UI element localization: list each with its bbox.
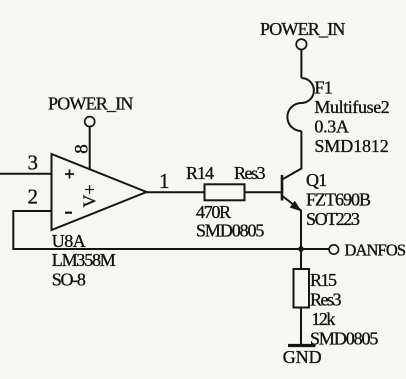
svg-text:Res3: Res3 <box>310 290 342 310</box>
wire R14 to Q1 base <box>245 191 282 193</box>
ground bar <box>288 344 316 347</box>
wire pin3 input <box>0 173 52 175</box>
Q1 emitter arrowhead <box>291 202 301 211</box>
op-amp U8A triangle <box>52 154 147 230</box>
svg-text:FZT690B: FZT690B <box>306 190 371 210</box>
wire fuse to Q1 collector <box>283 131 301 179</box>
svg-text:Res3: Res3 <box>234 163 266 183</box>
svg-text:SO-8: SO-8 <box>52 270 86 290</box>
svg-text:12k: 12k <box>311 309 335 329</box>
svg-text:SOT223: SOT223 <box>306 209 360 229</box>
wire R15 to ground <box>300 308 302 345</box>
svg-text:SMD0805: SMD0805 <box>310 329 378 349</box>
svg-text:SMD0805: SMD0805 <box>196 221 264 241</box>
svg-text:LM358M: LM358M <box>52 250 116 270</box>
svg-text:F1: F1 <box>314 78 332 98</box>
wire power to fuse <box>300 50 302 79</box>
svg-text:POWER_IN: POWER_IN <box>48 94 133 114</box>
svg-text:SMD1812: SMD1812 <box>314 136 388 156</box>
wire node to R15 <box>300 249 302 269</box>
power port circle top <box>296 39 306 49</box>
transistor Q1 base bar <box>281 175 284 201</box>
svg-text:GND: GND <box>283 347 322 367</box>
power port circle above op-amp <box>85 117 95 127</box>
svg-text:1: 1 <box>159 169 170 193</box>
svg-text:V+: V+ <box>80 184 100 207</box>
svg-text:0.3A: 0.3A <box>314 117 349 137</box>
svg-text:DANFOS: DANFOS <box>345 241 406 260</box>
port circle DANFOS <box>329 245 338 254</box>
svg-text:3: 3 <box>28 151 39 175</box>
svg-text:8: 8 <box>72 144 93 154</box>
fuse F1 body (S-curve) <box>287 78 313 131</box>
power pin 8 wire into op-amp <box>89 127 91 170</box>
op-amp plus input marker <box>65 170 74 179</box>
svg-text:Multifuse2: Multifuse2 <box>314 97 389 117</box>
svg-text:POWER_IN: POWER_IN <box>260 19 345 39</box>
svg-text:R14: R14 <box>186 163 214 183</box>
resistor R15 body <box>294 269 310 308</box>
op-amp minus input marker <box>65 212 72 214</box>
svg-text:R15: R15 <box>310 270 337 290</box>
junction dot emitter node <box>298 246 304 252</box>
svg-text:U8A: U8A <box>52 231 86 251</box>
wire pin2 input with feedback down and across <box>13 211 329 249</box>
svg-text:2: 2 <box>28 185 39 209</box>
transistor Q1 emitter <box>283 197 301 250</box>
svg-text:470R: 470R <box>196 202 231 222</box>
wire op-amp output to R14 <box>147 191 205 193</box>
resistor R14 body <box>205 184 245 200</box>
svg-text:Q1: Q1 <box>306 170 326 190</box>
